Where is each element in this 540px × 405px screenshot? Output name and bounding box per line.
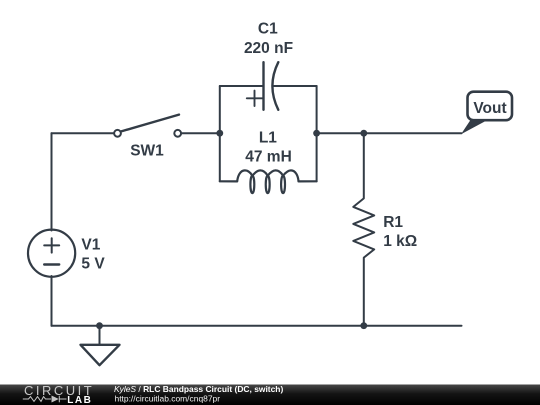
ground symbol triangle — [81, 345, 120, 365]
svg-text:R1: R1 — [383, 214, 403, 231]
LC tank box left vertical — [219, 86, 221, 181]
LC tank box right vertical — [316, 86, 318, 181]
wire left vertical bottom (source to ground rail) — [51, 276, 53, 326]
wire bottom rail — [52, 325, 462, 327]
svg-text:1 kΩ: 1 kΩ — [383, 233, 417, 250]
svg-text:220 nF: 220 nF — [244, 40, 293, 57]
node junction dot (R1 top / Vout) — [360, 130, 367, 137]
Vout flag box — [468, 92, 513, 121]
svg-text:47 mH: 47 mH — [245, 148, 292, 165]
node junction dot (ground) — [96, 322, 103, 329]
svg-text:http://circuitlab.com/cnq87pr: http://circuitlab.com/cnq87pr — [115, 394, 221, 404]
wire left vertical top (source to switch) — [51, 133, 53, 230]
switch SW1 — [114, 115, 181, 137]
svg-text:L1: L1 — [259, 129, 277, 146]
svg-text:V1: V1 — [81, 237, 100, 254]
node junction dot (R1 bottom) — [360, 322, 367, 329]
svg-text:SW1: SW1 — [130, 143, 164, 160]
svg-text:LAB: LAB — [67, 395, 92, 405]
V1 minus sign — [44, 263, 59, 265]
capacitor C1 plates — [264, 62, 279, 110]
wire LC node to output node — [317, 132, 364, 134]
voltage source V1 circle — [28, 230, 75, 277]
svg-text:Vout: Vout — [473, 100, 506, 117]
inductor L1 coil — [220, 170, 317, 193]
wire top left (node to switch) — [52, 132, 114, 134]
ground stub wire — [99, 326, 101, 345]
svg-text:C1: C1 — [258, 21, 278, 38]
V1 plus sign — [44, 238, 59, 252]
wire cap left lead — [220, 85, 264, 87]
svg-text:5 V: 5 V — [81, 255, 105, 272]
logo diode triangle — [52, 396, 59, 403]
wire switch to LC node — [182, 132, 220, 134]
resistor R1 zigzag — [353, 133, 374, 326]
node junction dot (LC right) — [313, 130, 320, 137]
logo schematic squiggle (resistor + diode) — [23, 396, 67, 403]
wire cap right lead — [274, 85, 317, 87]
wire output node to Vout pointer — [364, 132, 462, 134]
node junction dot (switch to LC left) — [216, 130, 223, 137]
Vout pointer triangle — [461, 120, 488, 134]
capacitor C1 polarity plus sign — [247, 91, 262, 106]
